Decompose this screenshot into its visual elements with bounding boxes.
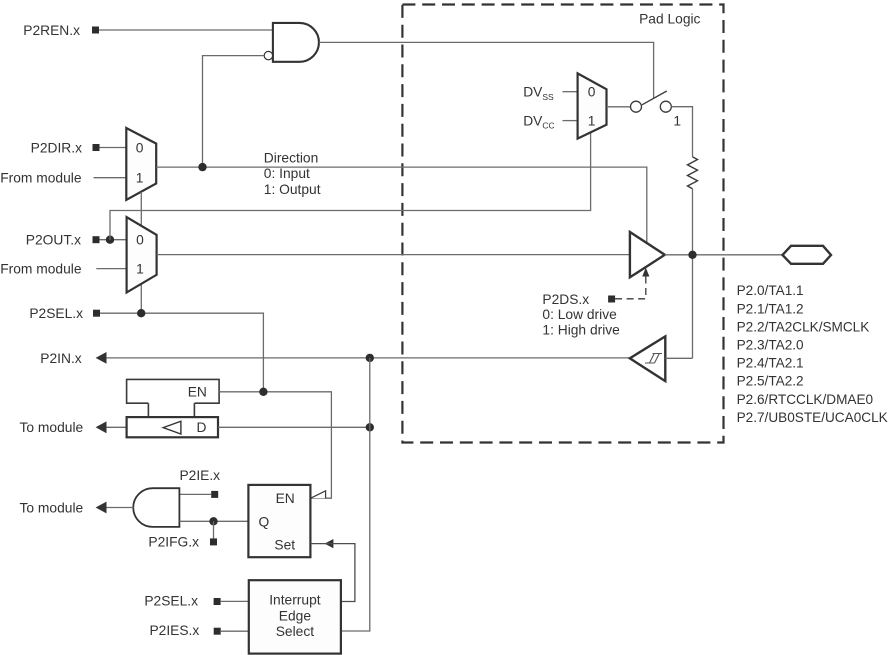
switch contact right — [660, 101, 671, 112]
svg-text:P2IE.x: P2IE.x — [179, 468, 220, 483]
svg-text:Pad Logic: Pad Logic — [639, 11, 700, 26]
wire D to P2IN vertical — [218, 426, 370, 428]
svg-text:P2SEL.x: P2SEL.x — [29, 306, 83, 321]
wire pad to schmitt input — [665, 357, 692, 359]
wire mux select P2DIR to P2OUT — [140, 192, 142, 226]
svg-text:P2.4/TA2.1: P2.4/TA2.1 — [737, 356, 804, 371]
wire direction node to AND bubble — [203, 56, 265, 168]
svg-text:Select: Select — [276, 624, 315, 639]
svg-text:P2IFG.x: P2IFG.x — [148, 535, 199, 550]
wire P2IE to AND — [179, 493, 211, 495]
latch D box — [127, 417, 218, 437]
wire P2REN.x to AND gate — [99, 29, 273, 31]
svg-text:1: 1 — [588, 114, 596, 129]
arrow Set input — [325, 539, 334, 548]
svg-text:P2IN.x: P2IN.x — [40, 351, 82, 366]
clock edge triangle — [311, 491, 326, 498]
latch legs to D box — [147, 403, 149, 417]
svg-text:P2REN.x: P2REN.x — [23, 23, 80, 38]
junction node EN/P2SEL — [259, 388, 267, 396]
wire DVcc to mux — [563, 120, 578, 122]
wire P2IN vertical to interrupt edge select — [341, 358, 370, 631]
wire resistor to pad node — [692, 189, 694, 359]
AND gate U1 (pull-up/down enable) — [273, 23, 319, 62]
svg-text:P2.3/TA2.0: P2.3/TA2.0 — [737, 338, 804, 353]
svg-text:P2.6/RTCCLK/DMAE0: P2.6/RTCCLK/DMAE0 — [737, 392, 874, 407]
wire P2OUT mux output to driver — [157, 254, 630, 256]
arrow To module (interrupt) — [96, 502, 107, 514]
latch buffer triangle — [163, 421, 181, 434]
svg-text:P2IES.x: P2IES.x — [149, 623, 199, 638]
svg-text:1: 1 — [136, 262, 144, 277]
wire switch to resistor — [671, 107, 692, 157]
svg-text:Q: Q — [259, 515, 270, 530]
svg-text:Interrupt: Interrupt — [269, 593, 321, 608]
wire DV mux to switch — [607, 106, 631, 108]
svg-text:DVCC: DVCC — [523, 114, 554, 131]
terminal square P2DS.x — [608, 296, 615, 303]
pad pin hexagon — [783, 246, 832, 264]
resistor R1 — [688, 157, 698, 189]
schmitt trigger input buffer — [630, 336, 666, 381]
wire AND output — [107, 507, 134, 509]
mux DV (pull-up/down select) — [578, 73, 607, 138]
svg-text:0: Low drive: 0: Low drive — [542, 307, 617, 322]
terminal square P2SEL.x (bottom) — [214, 598, 221, 605]
svg-text:From module: From module — [0, 170, 82, 185]
terminal square P2OUT.x — [93, 236, 100, 243]
interrupt edge select box — [249, 580, 341, 653]
AND gate U2 (interrupt, points left) — [133, 488, 179, 527]
wire P2SEL.x — [100, 313, 263, 392]
wire interrupt edge select to Set — [310, 544, 355, 602]
wire P2OUT to DV mux select — [110, 132, 591, 239]
junction node D — [366, 423, 374, 431]
terminal square P2REN.x — [92, 27, 99, 34]
wire P2DIR.x to mux — [100, 147, 127, 149]
svg-text:P2.0/TA1.1: P2.0/TA1.1 — [737, 283, 804, 298]
output driver buffer — [630, 232, 665, 277]
schmitt hysteresis symbol — [645, 354, 662, 364]
svg-text:0: Input: 0: Input — [264, 166, 310, 181]
Pad Logic dashed boundary box — [402, 5, 723, 443]
svg-text:P2.7/UB0STE/UCA0CLK: P2.7/UB0STE/UCA0CLK — [737, 410, 888, 425]
wire arrow to D box — [107, 426, 127, 428]
svg-text:To module: To module — [20, 500, 84, 515]
mux P2DIR (direction select) — [126, 128, 156, 200]
arrow P2DS drive strength — [642, 268, 649, 277]
svg-text:1: 1 — [673, 113, 681, 128]
mux P2OUT (output data select) — [127, 217, 157, 292]
svg-text:1: Output: 1: Output — [264, 182, 321, 197]
junction node P2OUT — [106, 236, 114, 244]
arrow To module — [96, 421, 107, 433]
switch contact left — [631, 101, 642, 112]
wire AND output to switch control — [319, 42, 654, 98]
svg-text:Direction: Direction — [264, 150, 318, 165]
svg-text:EN: EN — [276, 491, 295, 506]
svg-text:0: 0 — [588, 85, 596, 100]
wire From module to mux — [96, 268, 126, 270]
wire driver output to pad — [665, 254, 783, 256]
wire junction to P2IFG square — [213, 521, 215, 538]
svg-text:P2.5/TA2.2: P2.5/TA2.2 — [737, 374, 804, 389]
svg-text:0: 0 — [136, 140, 144, 155]
svg-text:To module: To module — [20, 420, 84, 435]
arrow P2IN.x — [96, 352, 107, 364]
svg-text:P2DIR.x: P2DIR.x — [31, 140, 82, 155]
svg-text:EN: EN — [188, 385, 207, 400]
junction node direction — [198, 163, 206, 171]
terminal square P2SEL.x — [93, 310, 100, 317]
svg-text:P2DS.x: P2DS.x — [542, 292, 589, 307]
svg-text:1: 1 — [136, 171, 144, 186]
svg-text:P2.2/TA2CLK/SMCLK: P2.2/TA2CLK/SMCLK — [737, 319, 870, 334]
wire Direction line — [156, 167, 647, 243]
latch EN box (bus keeper enable) — [127, 379, 220, 403]
svg-text:P2SEL.x: P2SEL.x — [144, 594, 198, 609]
switch blade — [642, 91, 667, 105]
svg-text:From module: From module — [0, 262, 82, 277]
svg-text:DVSS: DVSS — [523, 85, 554, 102]
wire DVss to mux — [563, 91, 578, 93]
junction node P2IN — [366, 354, 374, 362]
wire Q to AND — [179, 520, 248, 522]
wire EN to latch clock — [219, 392, 331, 498]
wire P2IES.x to interrupt box — [221, 630, 249, 632]
svg-text:D: D — [197, 420, 207, 435]
terminal square P2IES.x — [214, 628, 221, 635]
svg-text:Edge: Edge — [279, 608, 312, 623]
svg-text:1: High drive: 1: High drive — [542, 322, 620, 337]
junction node pad — [688, 251, 696, 259]
wire P2SEL.x to interrupt box — [221, 600, 249, 602]
junction node P2IFG — [209, 517, 217, 525]
terminal square P2IFG.x — [210, 538, 217, 545]
svg-text:Set: Set — [274, 538, 295, 553]
svg-text:P2OUT.x: P2OUT.x — [26, 233, 81, 248]
flag register box Q/EN/Set — [248, 485, 310, 557]
terminal square P2DIR.x — [93, 144, 100, 151]
wire P2IN line — [107, 357, 630, 359]
svg-text:P2.1/TA1.2: P2.1/TA1.2 — [737, 301, 804, 316]
inverter bubble on AND gate lower input — [264, 51, 272, 59]
junction node P2SEL select — [137, 309, 145, 317]
terminal square P2IE.x — [211, 491, 218, 498]
wire mux select P2OUT to P2SEL junction — [140, 284, 142, 313]
wire P2OUT.x to mux — [100, 239, 127, 241]
dashed wire P2DS — [615, 277, 646, 299]
svg-text:0: 0 — [136, 233, 144, 248]
wire From module to mux — [94, 177, 127, 179]
